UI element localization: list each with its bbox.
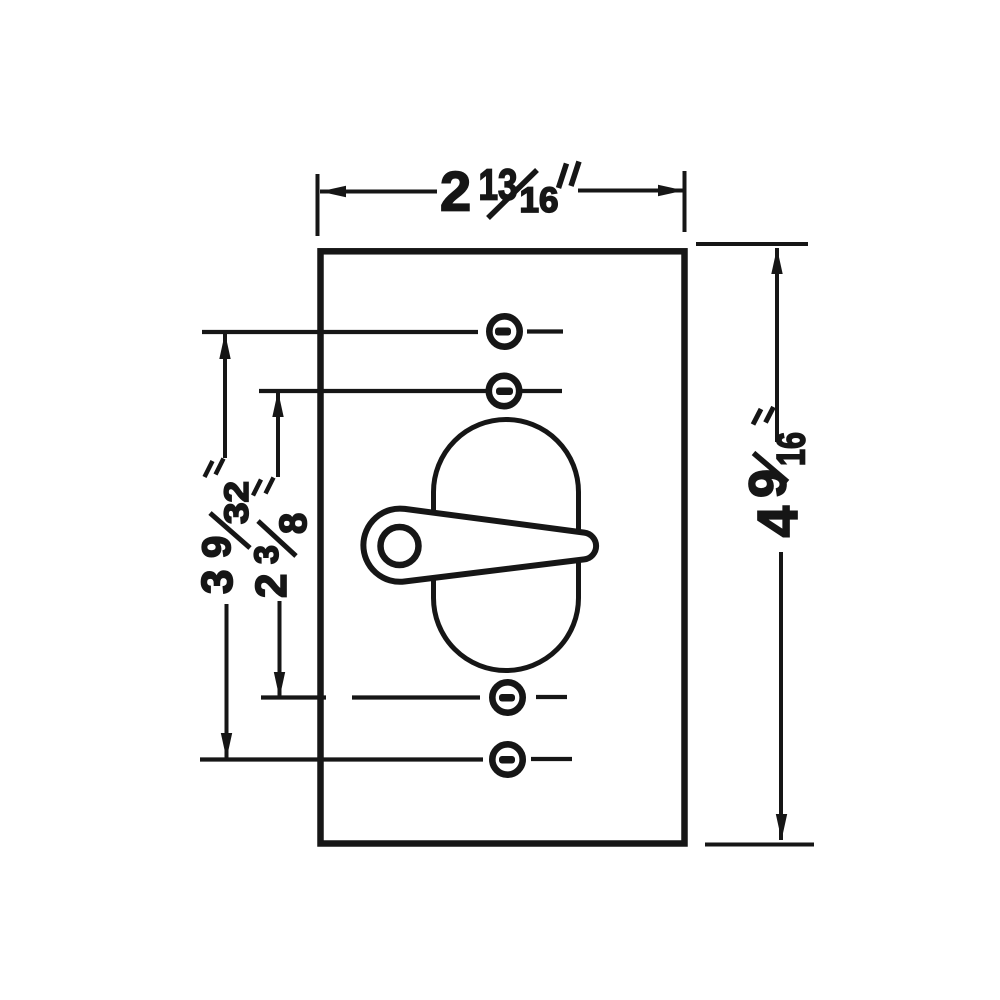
dimension label 2 3/8 inch: [247, 513, 315, 598]
width dimension line left segment with arrow: [320, 191, 684, 192]
svg-text:8: 8: [273, 513, 315, 534]
screw hole 1 centerline: [202, 329, 563, 334]
height dimension line with arrows: [777, 248, 781, 840]
svg-text:16: 16: [520, 181, 559, 220]
screw hole 3: [492, 682, 522, 712]
svg-text:3: 3: [248, 545, 286, 564]
svg-text:9: 9: [195, 536, 239, 558]
hole span dimension line 2 3/8: [278, 391, 280, 698]
screw hole 4 centerline: [200, 757, 572, 762]
svg-text:3: 3: [193, 570, 242, 594]
svg-text:2: 2: [440, 160, 471, 223]
lever handle: [363, 509, 596, 582]
hole span dimension line 3 9/32: [225, 333, 227, 759]
height dimension extension lines: [696, 244, 814, 845]
screw hole 1: [489, 316, 519, 346]
width dimension extension ticks: [318, 171, 685, 236]
screw hole 4: [492, 744, 522, 774]
switch opening stadium: [434, 420, 579, 671]
screw hole 3 centerline: [261, 695, 567, 700]
svg-text:16: 16: [770, 432, 814, 466]
svg-text:4: 4: [746, 506, 810, 538]
height dimension label 4 9/16 inch: [740, 432, 814, 538]
lever pivot hole: [381, 527, 419, 565]
plate outline: [321, 251, 685, 843]
screw hole 2 centerline: [259, 389, 562, 393]
screw hole 2: [489, 376, 519, 406]
width dimension label 2 13/16 inch: [440, 160, 579, 223]
svg-text:13: 13: [479, 161, 518, 210]
svg-text:32: 32: [218, 481, 256, 524]
svg-text:9: 9: [740, 469, 798, 498]
dimension label 3 9/32 inch: [193, 481, 256, 594]
svg-text:2: 2: [247, 574, 296, 598]
